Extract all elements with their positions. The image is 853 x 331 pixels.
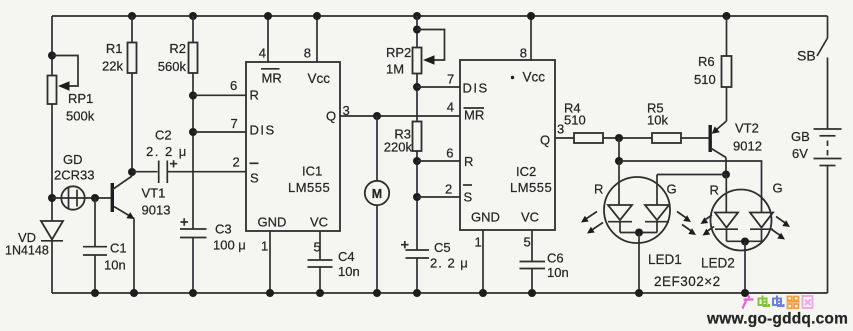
pin 3 IC1 Q: [326, 103, 350, 124]
pin 3 IC2 Q: [540, 122, 564, 148]
svg-text:2: 2: [233, 155, 240, 170]
junction VT1 collector node: [128, 168, 136, 176]
svg-text:7: 7: [447, 72, 454, 87]
svg-text:2. 2 μ: 2. 2 μ: [146, 144, 188, 159]
switch SB: [797, 16, 828, 129]
junction C1 ground: [91, 289, 99, 297]
svg-text:1M: 1M: [386, 62, 404, 77]
svg-text:6: 6: [230, 78, 237, 93]
svg-text:560k: 560k: [158, 59, 187, 74]
capacitor C5 2.2u: [401, 240, 469, 293]
svg-text:VT1: VT1: [142, 186, 166, 201]
svg-text:2. 2 μ: 2. 2 μ: [430, 256, 469, 271]
wire top supply rail: [52, 15, 828, 17]
svg-text:9012: 9012: [733, 139, 762, 154]
svg-text:MR: MR: [262, 71, 282, 86]
svg-text:1: 1: [261, 239, 268, 254]
svg-text:IC1: IC1: [302, 164, 322, 179]
op-amp U2 timer IC2 LM555: [460, 60, 555, 230]
pin 6 IC1 R: [230, 78, 259, 103]
watermark logo char 1: [743, 296, 754, 309]
svg-text:VC: VC: [521, 210, 539, 225]
svg-text:VC: VC: [310, 215, 328, 230]
wire ground rail: [52, 292, 828, 294]
wire battery to ground rail: [827, 166, 829, 294]
wire collector bus to LED1 G: [657, 175, 726, 206]
pin 7 IC1 DIS: [231, 116, 276, 138]
svg-text:220k: 220k: [384, 140, 413, 155]
svg-text:S: S: [250, 171, 259, 186]
capacitor C1 10n: [83, 198, 127, 293]
junction LED1 ground: [635, 289, 643, 297]
battery GB 6V: [791, 129, 842, 166]
svg-text:10n: 10n: [104, 258, 126, 273]
wire R1 to VT1 collector: [131, 73, 133, 172]
wire collector to LED2 R: [725, 175, 727, 213]
wire left supply drop to RP1: [51, 16, 53, 76]
junction C6 ground: [528, 289, 536, 297]
svg-text:R1: R1: [106, 41, 123, 56]
svg-text:8: 8: [304, 46, 311, 61]
svg-text:510: 510: [564, 113, 586, 128]
svg-text:RP1: RP1: [68, 91, 93, 106]
junction node C1 top: [91, 194, 99, 202]
svg-text:IC2: IC2: [516, 164, 536, 179]
junction IC1 pin1 ground: [266, 289, 274, 297]
svg-text:Q: Q: [326, 109, 336, 124]
pin 5 IC2 VC: [521, 210, 539, 262]
resistor R6 510: [694, 16, 732, 87]
svg-text:Q: Q: [540, 133, 550, 148]
capacitor C4 10n: [308, 249, 360, 293]
svg-text:1N4148: 1N4148: [5, 244, 49, 258]
pin 6 IC2 R: [446, 146, 473, 170]
pin 1 IC2 GND: [471, 210, 500, 294]
pin 1 IC1 GND: [258, 215, 287, 294]
junction motor node: [373, 112, 381, 120]
svg-text:2EF302×2: 2EF302×2: [654, 274, 721, 289]
capacitor C2 2.2u: [146, 128, 188, 184]
resistor R1 22k: [102, 16, 136, 74]
svg-text:2CR33: 2CR33: [54, 168, 94, 183]
wire RP1 to GD/VD column: [51, 104, 53, 221]
svg-text:RP2: RP2: [386, 45, 411, 60]
wire node B to LED1 R: [618, 161, 620, 205]
svg-text:DIS: DIS: [463, 81, 489, 96]
wire to IC2 pin7: [417, 86, 460, 88]
svg-text:C2: C2: [155, 128, 172, 143]
svg-text:R: R: [250, 88, 259, 103]
motor M: [365, 181, 389, 205]
svg-text:6: 6: [446, 146, 453, 161]
resistor R5 10k: [647, 101, 681, 144]
svg-text:4: 4: [447, 100, 454, 115]
svg-text:5: 5: [524, 235, 531, 250]
wire RP1 wiper link: [52, 56, 78, 87]
resistor R4 510: [564, 101, 603, 144]
svg-text:LED1: LED1: [648, 252, 682, 267]
junction DIS2 node: [413, 83, 421, 91]
LED1 emission arrows right: [677, 212, 696, 236]
svg-text:R: R: [594, 182, 603, 197]
svg-text:G: G: [667, 182, 677, 197]
svg-text:10k: 10k: [647, 113, 668, 128]
wire R2 down to C3: [192, 73, 194, 229]
junction RP2 top rail: [413, 12, 421, 20]
svg-text:www.go-gddq.com: www.go-gddq.com: [706, 311, 848, 328]
watermark logo char 2: [759, 296, 770, 307]
wire C2 to IC1 pin2: [167, 171, 246, 173]
svg-text:R: R: [710, 183, 719, 198]
svg-text:8: 8: [520, 46, 527, 61]
svg-text:500k: 500k: [66, 109, 95, 124]
wire VD cathode to ground: [51, 241, 53, 293]
junction LED2 ground: [741, 289, 749, 297]
svg-text:1: 1: [475, 235, 482, 250]
junction node A: [615, 134, 623, 142]
resistor R3 220k: [384, 122, 422, 155]
junction R6 top rail: [723, 12, 731, 20]
potentiometer RP1: [48, 76, 95, 124]
watermark logo char 5: [803, 296, 813, 308]
junction pin2 node: [413, 193, 421, 201]
pin 2 IC1 S: [233, 155, 260, 186]
junction C4 ground: [316, 289, 324, 297]
wire RP2 wiper link: [417, 30, 445, 61]
svg-text:7: 7: [231, 116, 238, 131]
svg-text:Vcc: Vcc: [308, 71, 331, 86]
svg-text:R2: R2: [169, 41, 186, 56]
wire R4 to R5: [603, 137, 652, 139]
junction R1 top rail: [128, 12, 136, 20]
svg-text:LM555: LM555: [510, 180, 552, 195]
wire node B to LED2 G: [619, 161, 762, 213]
wire to IC1 pin7: [193, 131, 246, 133]
pin 8 IC2 Vcc: [511, 12, 545, 85]
wire LED2 cathode to ground: [744, 242, 746, 294]
wire VT1 emitter to ground: [133, 219, 135, 294]
junction VT2 collector node: [722, 171, 730, 179]
svg-text:C4: C4: [338, 249, 355, 264]
pin 5 IC1 VC: [310, 215, 328, 260]
svg-text:6V: 6V: [792, 146, 808, 161]
svg-text:VT2: VT2: [735, 121, 759, 136]
wire RP2 to R3: [416, 74, 418, 122]
svg-text:LM555: LM555: [288, 180, 330, 195]
junction R2 top rail: [189, 12, 197, 20]
wire to IC1 pin6: [193, 94, 246, 96]
capacitor C3 100u: [180, 218, 246, 293]
svg-text:10n: 10n: [338, 264, 360, 279]
junction IC2 pin1 ground: [479, 289, 487, 297]
junction pin6 node: [189, 92, 197, 100]
wire R5 to VT2 base: [681, 137, 709, 139]
junction motor ground: [373, 289, 381, 297]
svg-text:GB: GB: [791, 129, 810, 144]
LED1 emission arrows left: [581, 212, 603, 234]
junction node GD left: [48, 194, 56, 202]
watermark logo char 3: [773, 296, 784, 307]
svg-text:Vcc: Vcc: [523, 70, 546, 85]
LED2 emission arrows left: [701, 215, 715, 236]
pin 4 IC1: [259, 12, 282, 86]
junction VT1 emitter ground: [130, 289, 138, 297]
LED2 emission arrows right: [771, 217, 790, 240]
junction C3 ground: [189, 289, 197, 297]
junction C5 ground: [413, 289, 421, 297]
wire RP2 top lead: [416, 16, 418, 48]
LED LED1 dual 2EF302: [594, 177, 682, 267]
svg-text:R: R: [464, 154, 473, 169]
junction RP2 wiper tap: [413, 26, 421, 34]
junction node wiper tap: [48, 52, 56, 60]
svg-text:GD: GD: [63, 152, 83, 167]
wire to IC2 pin6: [417, 160, 460, 162]
LED LED2 dual 2EF302: [701, 181, 783, 271]
svg-text:10n: 10n: [547, 265, 569, 280]
svg-text:22k: 22k: [102, 59, 123, 74]
svg-text:C5: C5: [434, 240, 451, 255]
wire IC2 Q to R4: [555, 137, 574, 139]
wire to IC2 pin2: [417, 196, 460, 198]
svg-text:GND: GND: [471, 210, 500, 225]
svg-text:2: 2: [445, 182, 452, 197]
svg-text:R6: R6: [698, 54, 715, 69]
wire motor to ground: [376, 205, 378, 293]
pin 4 IC2 MR: [447, 100, 484, 123]
svg-text:LED2: LED2: [701, 256, 735, 271]
svg-text:C1: C1: [110, 241, 127, 256]
svg-text:SB: SB: [797, 48, 816, 64]
svg-text:MR: MR: [464, 108, 484, 123]
transistor VT2 9012: [709, 87, 762, 175]
transistor VT1 9013: [111, 176, 171, 219]
wire collector to C2: [132, 171, 158, 173]
pin 2 IC2 S: [445, 182, 473, 205]
svg-text:S: S: [464, 190, 473, 205]
wire node A down: [618, 138, 620, 161]
wire GD row to VT1 base: [52, 197, 111, 199]
potentiometer RP2 1M: [386, 45, 435, 77]
svg-text:M: M: [372, 187, 382, 201]
resistor R2 560k: [158, 16, 198, 74]
wire motor top lead: [376, 116, 378, 181]
svg-text:510: 510: [694, 72, 716, 87]
svg-text:DIS: DIS: [250, 123, 276, 138]
capacitor C6 10n: [520, 251, 569, 294]
svg-text:G: G: [773, 181, 783, 196]
junction R3/pin6 node: [413, 157, 421, 165]
photocell GD 2CR33: [54, 152, 94, 210]
svg-text:GND: GND: [258, 215, 287, 230]
svg-text:100 μ: 100 μ: [213, 238, 246, 253]
svg-text:C6: C6: [547, 251, 564, 266]
op-amp U1 timer IC1 LM555: [246, 62, 340, 231]
diode VD 1N4148: [5, 221, 63, 258]
watermark logo char 4: [787, 297, 800, 309]
wire LED1 cathode to ground: [638, 233, 640, 294]
wire IC1 Q to IC2 MR: [340, 115, 460, 117]
junction node B: [615, 157, 623, 165]
svg-text:C3: C3: [215, 222, 232, 237]
pin 7 IC2 DIS: [447, 72, 489, 96]
junction pin7 node: [189, 128, 197, 136]
pin 8 IC1 Vcc: [304, 12, 330, 86]
svg-text:9013: 9013: [142, 203, 171, 218]
svg-text:4: 4: [259, 46, 266, 61]
wire R3 bottom to C5: [416, 151, 418, 250]
